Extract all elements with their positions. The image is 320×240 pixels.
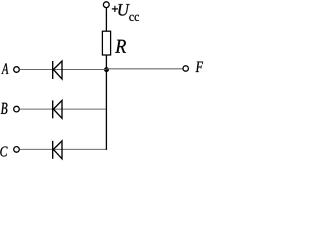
node junction dot xyxy=(104,67,109,72)
input terminal A xyxy=(14,67,20,73)
label F xyxy=(196,62,203,72)
wire A to bus xyxy=(20,69,107,71)
wire Ucc to resistor xyxy=(105,8,107,32)
input terminal C xyxy=(14,147,20,153)
wire B to bus xyxy=(20,108,107,110)
wire C to bus xyxy=(20,148,107,150)
resistor R xyxy=(102,31,110,55)
bus wire node to C row xyxy=(105,70,107,150)
output terminal F xyxy=(183,66,188,71)
diode D2 xyxy=(53,100,62,118)
label C xyxy=(0,147,7,157)
power terminal +Ucc xyxy=(103,2,109,8)
input terminal B xyxy=(14,106,20,112)
label A xyxy=(1,63,8,74)
wire resistor to node xyxy=(105,55,107,70)
diode D1 xyxy=(53,61,62,79)
diode D3 xyxy=(53,141,62,159)
wire node to F xyxy=(107,68,183,70)
label B xyxy=(1,103,8,114)
label +Ucc xyxy=(112,4,139,21)
label R xyxy=(115,40,126,53)
